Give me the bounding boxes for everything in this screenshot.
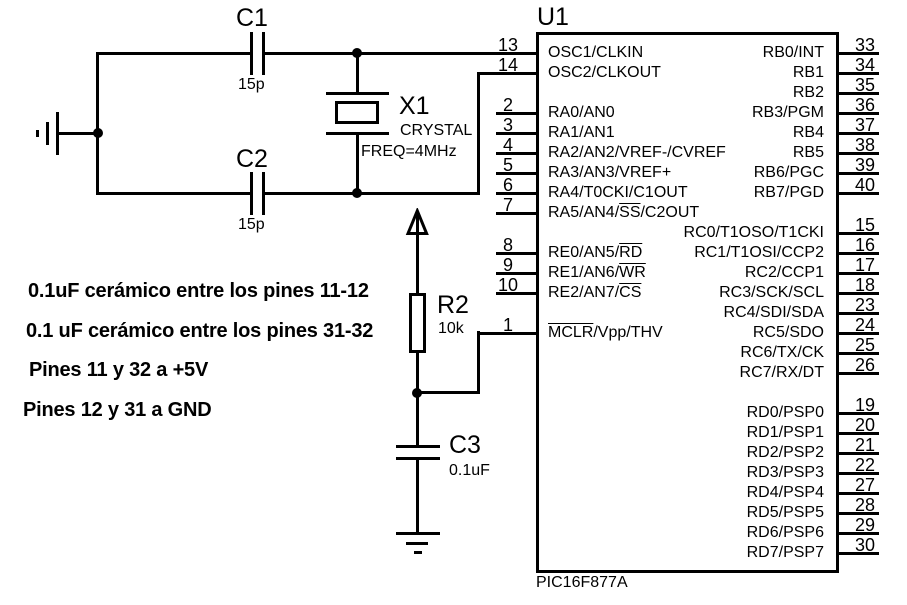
pin 39 (RB6/PGC)	[836, 172, 879, 175]
wire C3 to ground	[416, 460, 419, 534]
pin 20 (RD1/PSP1)	[836, 432, 879, 435]
crystal X1	[356, 52, 359, 93]
wire left vertical bus	[96, 52, 99, 195]
wire arrow to R2	[416, 212, 419, 294]
pin 15 (RC0/T1OSO/T1CKI)	[836, 232, 879, 235]
wire OSC2 to pin 14	[477, 72, 539, 75]
junction dot crystal bottom	[352, 188, 362, 198]
pin 23 (RC4/SDI/SDA)	[836, 312, 879, 315]
pin 17 (RC2/CCP1)	[836, 272, 879, 275]
pin 27 (RD4/PSP4)	[836, 492, 879, 495]
junction dot on left bus	[93, 128, 103, 138]
resistor R2	[409, 293, 426, 353]
pin 6 (RA4/T0CKI/C1OUT)	[496, 192, 539, 195]
pin 2 (RA0/AN0)	[496, 112, 539, 115]
pin 16 (RC1/T1OSI/CCP2)	[836, 252, 879, 255]
note line 1	[28, 281, 369, 301]
wire MCLR to pin 1	[477, 332, 539, 335]
pin 35 (RB2)	[836, 92, 879, 95]
wire top net right segment (C1 to pin13)	[265, 52, 539, 55]
pin 24 (RC5/SDO)	[836, 332, 879, 335]
pin 26 (RC7/RX/DT)	[836, 372, 879, 375]
pin 28 (RD5/PSP5)	[836, 512, 879, 515]
pin 1 (MCLR/Vpp/THV)	[480, 316, 536, 334]
pin 33 (RB0/INT)	[836, 52, 879, 55]
op IC U1 PIC16F877A body	[536, 32, 839, 573]
pin 9 (RE1/AN6/WR)	[496, 272, 539, 275]
wire OSC2 vertical riser	[477, 72, 480, 195]
wire bottom net left segment (to C2)	[96, 192, 250, 195]
wire R2 to MCLR node	[416, 352, 419, 394]
capacitor C2	[250, 172, 253, 215]
pin 5 (RA3/AN3/VREF+)	[496, 172, 539, 175]
wire MCLR riser	[477, 331, 480, 394]
pin 36 (RB3/PGM)	[836, 112, 879, 115]
note line 2	[26, 321, 373, 341]
pin 14 (OSC2/CLKOUT)	[480, 56, 536, 74]
pin 19 (RD0/PSP0)	[836, 412, 879, 415]
pin 25 (RC6/TX/CK)	[836, 352, 879, 355]
pin 22 (RD3/PSP3)	[836, 472, 879, 475]
ground (bottom)	[396, 532, 440, 535]
junction dot MCLR node	[412, 388, 422, 398]
pin 38 (RB5)	[836, 152, 879, 155]
capacitor C1	[250, 32, 253, 75]
pin 18 (RC3/SCK/SCL)	[836, 292, 879, 295]
note line 4	[23, 400, 212, 420]
pin 8 (RE0/AN5/RD)	[496, 252, 539, 255]
pin 7 (RA5/AN4/SS/C2OUT)	[496, 212, 539, 215]
note line 3	[29, 360, 208, 380]
junction dot crystal top	[352, 48, 362, 58]
ground (left, rotated)	[56, 112, 59, 155]
pin 34 (RB1)	[836, 72, 879, 75]
power arrow (+5V)	[403, 208, 432, 237]
wire bottom net right segment (C2 to OSC2 drop)	[265, 192, 480, 195]
pin 10 (RE2/AN7/CS)	[496, 292, 539, 295]
pin 21 (RD2/PSP2)	[836, 452, 879, 455]
pin 40 (RB7/PGD)	[836, 192, 879, 195]
wire MCLR node right	[417, 391, 480, 394]
pin 13 (OSC1/CLKIN)	[480, 36, 536, 54]
wire top net left segment (to C1)	[96, 52, 250, 55]
pin 37 (RB4)	[836, 132, 879, 135]
capacitor C3	[396, 445, 440, 448]
pin 3 (RA1/AN1)	[496, 132, 539, 135]
pin 4 (RA2/AN2/VREF-/CVREF)	[496, 152, 539, 155]
pin 30 (RD7/PSP7)	[836, 552, 879, 555]
wire ground to left bus	[59, 132, 99, 135]
pin 29 (RD6/PSP6)	[836, 532, 879, 535]
wire MCLR node to C3	[416, 393, 419, 446]
